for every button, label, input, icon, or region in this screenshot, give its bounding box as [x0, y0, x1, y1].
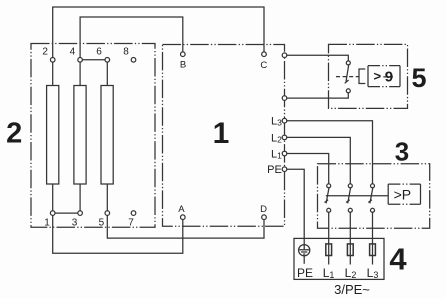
terminal D	[262, 215, 267, 220]
thermostat actuator bracket	[359, 69, 365, 84]
terminal 1	[50, 211, 55, 216]
wire contactor pole1 to fuse F1	[328, 212, 330, 264]
svg-text:L1: L1	[323, 266, 335, 280]
contactor pole 2	[346, 184, 352, 213]
svg-text:3/PE~: 3/PE~	[334, 282, 370, 297]
box 1 (charge controller boundary)	[163, 45, 285, 227]
terminal 4	[78, 58, 83, 63]
node thermostat return on box1 edge	[282, 96, 287, 101]
thermostat actuator dashed link	[336, 76, 359, 78]
wire terminal4-to-B	[80, 17, 183, 62]
svg-text:>P: >P	[394, 186, 412, 202]
svg-text:4: 4	[389, 242, 407, 277]
wire terminal2-to-E1	[52, 62, 54, 85]
wire L1 feed	[287, 154, 329, 184]
svg-text:6: 6	[96, 47, 102, 58]
wire jumper terminal4-terminal6	[82, 59, 105, 61]
svg-text:3: 3	[72, 218, 78, 229]
svg-text:1: 1	[213, 117, 230, 150]
wire box1-edge-to-thermostat-top	[287, 55, 349, 61]
terminal B	[181, 52, 186, 57]
svg-text:8: 8	[123, 47, 129, 58]
fuse F2	[347, 244, 353, 256]
svg-text:4: 4	[70, 47, 76, 58]
heating element E3	[101, 86, 113, 185]
contactor pole 1 (box 3)	[325, 184, 331, 213]
wire E2-to-terminal3	[79, 184, 81, 211]
wire terminal2-to-C	[53, 7, 264, 62]
node thermostat feed on box1 edge	[282, 53, 287, 58]
svg-text:PE: PE	[297, 266, 313, 280]
wire terminal5-to-D	[107, 215, 264, 238]
node PE	[282, 167, 287, 172]
wire terminal4-to-E2	[79, 62, 81, 85]
svg-text:A: A	[178, 204, 185, 215]
terminal 6	[105, 58, 110, 63]
box 4 (supply terminal block)	[294, 238, 384, 279]
svg-text:1: 1	[44, 218, 50, 229]
wire E3-to-terminal5	[106, 184, 108, 211]
wire terminal6-to-E3	[106, 62, 108, 85]
svg-text:L2: L2	[271, 132, 282, 144]
terminal 3	[78, 211, 83, 216]
node L3	[282, 118, 287, 123]
svg-text:>: >	[374, 69, 382, 84]
svg-text:2: 2	[42, 47, 48, 58]
wire E1-to-terminal1	[52, 184, 54, 211]
wire contactor pole2 to fuse F2	[349, 212, 351, 264]
earth terminal in box 4	[299, 245, 310, 264]
svg-text:B: B	[180, 59, 186, 70]
svg-text:7: 7	[128, 218, 134, 229]
svg-text:L3: L3	[367, 266, 379, 280]
heating element E1	[47, 86, 59, 185]
wire thermostat-bottom-to-box1-edge	[287, 93, 349, 98]
box 3 (contactor boundary)	[318, 164, 430, 228]
fuse F1	[326, 244, 332, 256]
terminal C	[262, 52, 267, 57]
terminal 7	[131, 211, 136, 216]
svg-text:PE: PE	[267, 164, 282, 176]
wire contactor pole3 to fuse F3	[372, 212, 374, 264]
terminal 8	[131, 58, 136, 63]
heating element E2	[74, 86, 86, 185]
terminal 5	[105, 211, 110, 216]
terminal 2	[50, 58, 55, 63]
svg-text:C: C	[260, 60, 267, 71]
svg-text:3: 3	[395, 136, 409, 166]
node L2	[282, 135, 287, 140]
wire PE feed	[287, 169, 304, 245]
contactor linkage bar	[326, 195, 388, 197]
thermostat function box >theta	[368, 66, 400, 87]
svg-text:L1: L1	[271, 148, 282, 160]
fuse F3	[370, 244, 376, 256]
pressure function box >P	[388, 184, 420, 204]
svg-text:2: 2	[6, 118, 22, 150]
contactor pole 3	[368, 184, 374, 213]
svg-text:9: 9	[385, 69, 393, 86]
node L1	[282, 151, 287, 156]
terminal A	[181, 215, 186, 220]
svg-text:D: D	[260, 204, 267, 215]
wire jumper terminal1-terminal3	[55, 212, 78, 214]
svg-text:L2: L2	[345, 266, 357, 280]
wire terminal1-to-A	[53, 215, 183, 253]
box 2 (heating element assembly boundary)	[31, 44, 155, 228]
svg-text:5: 5	[411, 63, 426, 93]
svg-text:5: 5	[99, 218, 105, 229]
wire L2 feed	[287, 137, 351, 184]
box 5 (safety thermostat boundary)	[329, 44, 408, 108]
svg-text:L3: L3	[271, 116, 282, 128]
thermostat switch contact (box 5)	[345, 61, 351, 93]
wire L3 feed	[287, 121, 373, 184]
